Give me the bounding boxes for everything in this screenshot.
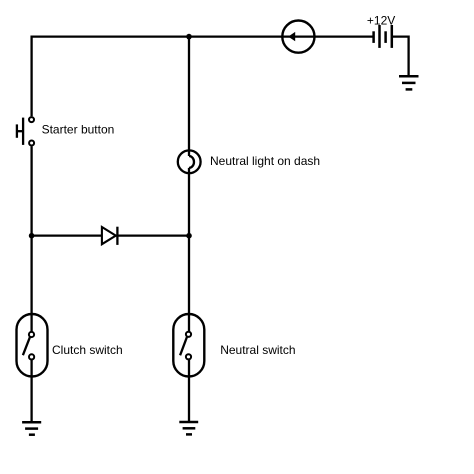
battery B1 plate 2 (long)	[378, 25, 381, 48]
junction node: middle bus / diode row	[186, 233, 192, 239]
wire: diode junction to neutral switch	[188, 236, 190, 332]
arrowhead on current indicator	[288, 32, 295, 41]
lamp filament loop	[189, 156, 194, 168]
wire: starter button to diode junction and on to clutch switch	[30, 146, 32, 331]
starter button lower terminal	[29, 141, 34, 146]
wire: neutral switch lower terminal to ground	[188, 360, 190, 422]
svg-text:Clutch switch: Clutch switch	[52, 343, 123, 357]
ground (battery return)	[399, 76, 419, 89]
clutch switch enclosure	[17, 314, 48, 377]
svg-text:+12V: +12V	[367, 13, 395, 27]
wire: lamp to diode junction	[188, 168, 190, 236]
battery B1 plate 3 (short)	[384, 31, 387, 43]
junction node: top bus / lamp branch	[186, 34, 192, 40]
clutch switch lower terminal	[29, 354, 34, 359]
battery B1 plate 4 (long)	[391, 25, 394, 48]
neutral switch lower terminal	[186, 354, 191, 359]
clutch switch lever	[23, 337, 30, 355]
starter button contact bar	[22, 118, 24, 145]
lamp: neutral light outline	[178, 150, 201, 173]
ground (clutch switch)	[22, 422, 41, 434]
starter button stem	[17, 130, 23, 132]
ground (neutral switch)	[179, 422, 198, 434]
neutral switch lever	[180, 337, 187, 355]
diode D1 anode triangle	[102, 227, 116, 244]
starter button upper terminal	[29, 117, 34, 122]
neutral switch upper terminal	[186, 332, 191, 337]
wire: middle bus, junction down into neutral lamp	[188, 37, 190, 156]
wire: left bus, top corner down to starter button	[30, 36, 32, 117]
battery B1 plate 1 (short)	[372, 31, 375, 43]
svg-text:Neutral light on dash: Neutral light on dash	[210, 154, 320, 168]
svg-text:Starter button: Starter button	[42, 123, 115, 137]
junction node: left bus / diode row	[29, 233, 35, 239]
diode D1 cathode bar	[116, 227, 118, 245]
current direction indicator circle	[282, 20, 314, 52]
clutch switch upper terminal	[29, 332, 34, 337]
wire: battery positive to ground drop	[393, 37, 409, 77]
starter button cap	[16, 124, 18, 137]
wire: clutch switch lower terminal to ground	[30, 360, 32, 422]
wire: diode row horizontal	[32, 234, 189, 236]
svg-text:Neutral switch: Neutral switch	[220, 343, 295, 357]
neutral switch enclosure	[173, 314, 204, 377]
wire: top horizontal bus	[31, 35, 373, 37]
